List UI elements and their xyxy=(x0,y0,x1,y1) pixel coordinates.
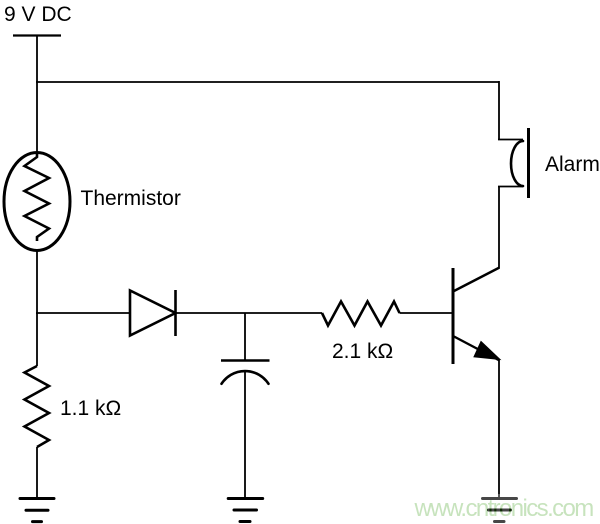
capacitor C1 curved plate xyxy=(222,371,269,384)
svg-text:9 V DC: 9 V DC xyxy=(4,3,72,26)
ground right xyxy=(483,499,517,522)
power supply bar 9V xyxy=(13,34,61,36)
thermistor ellipse xyxy=(4,153,70,251)
thermistor zigzag element xyxy=(25,154,50,242)
label 9 V DC xyxy=(4,3,72,26)
svg-text:1.1 kΩ: 1.1 kΩ xyxy=(60,397,121,420)
alarm buzzer top stub wire xyxy=(498,139,523,141)
wire resistor 1.1k to ground xyxy=(36,447,38,499)
alarm buzzer dome xyxy=(511,141,523,186)
resistor 1.1 kOhm zigzag xyxy=(25,366,50,447)
alarm buzzer plate bar xyxy=(527,128,530,198)
wire diode to capacitor node xyxy=(176,312,246,314)
diode D1 xyxy=(130,290,176,336)
watermark www.cntronics.com xyxy=(409,494,600,524)
wire alarm to transistor collector xyxy=(498,187,500,269)
wire capacitor node to resistor 2.1k xyxy=(245,312,322,314)
wire node A down to resistor 1.1k xyxy=(36,313,38,366)
transistor Q1 emitter lead with arrow xyxy=(454,337,500,361)
transistor Q1 collector lead xyxy=(454,268,500,292)
wire resistor 2.1k to transistor base xyxy=(400,312,453,314)
node A junction wire to diode xyxy=(36,312,130,314)
wire thermistor bottom to node A xyxy=(36,250,38,314)
wire capacitor to ground xyxy=(244,372,246,499)
label 1.1 kOhm xyxy=(60,397,121,420)
svg-text:2.1 kΩ: 2.1 kΩ xyxy=(332,340,393,363)
wire transistor emitter to ground xyxy=(498,360,500,499)
label 2.1 kOhm xyxy=(332,340,393,363)
label Thermistor xyxy=(81,187,181,210)
wire capacitor node down to top plate xyxy=(244,313,246,360)
svg-text:Alarm: Alarm xyxy=(545,153,600,176)
svg-text:www.cntronics.com: www.cntronics.com xyxy=(414,495,594,522)
wire right rail down to alarm xyxy=(498,81,500,140)
ground middle xyxy=(228,499,263,522)
capacitor C1 top plate xyxy=(221,359,270,362)
wire top rail horizontal xyxy=(36,81,499,83)
wire supply bar to thermistor top xyxy=(36,36,38,154)
svg-text:Thermistor: Thermistor xyxy=(81,187,181,210)
label Alarm xyxy=(545,153,600,176)
resistor 2.1 kOhm zigzag xyxy=(322,302,400,326)
transistor Q1 base bar xyxy=(452,268,455,364)
ground left xyxy=(20,499,54,522)
alarm buzzer bottom stub wire xyxy=(498,186,523,188)
